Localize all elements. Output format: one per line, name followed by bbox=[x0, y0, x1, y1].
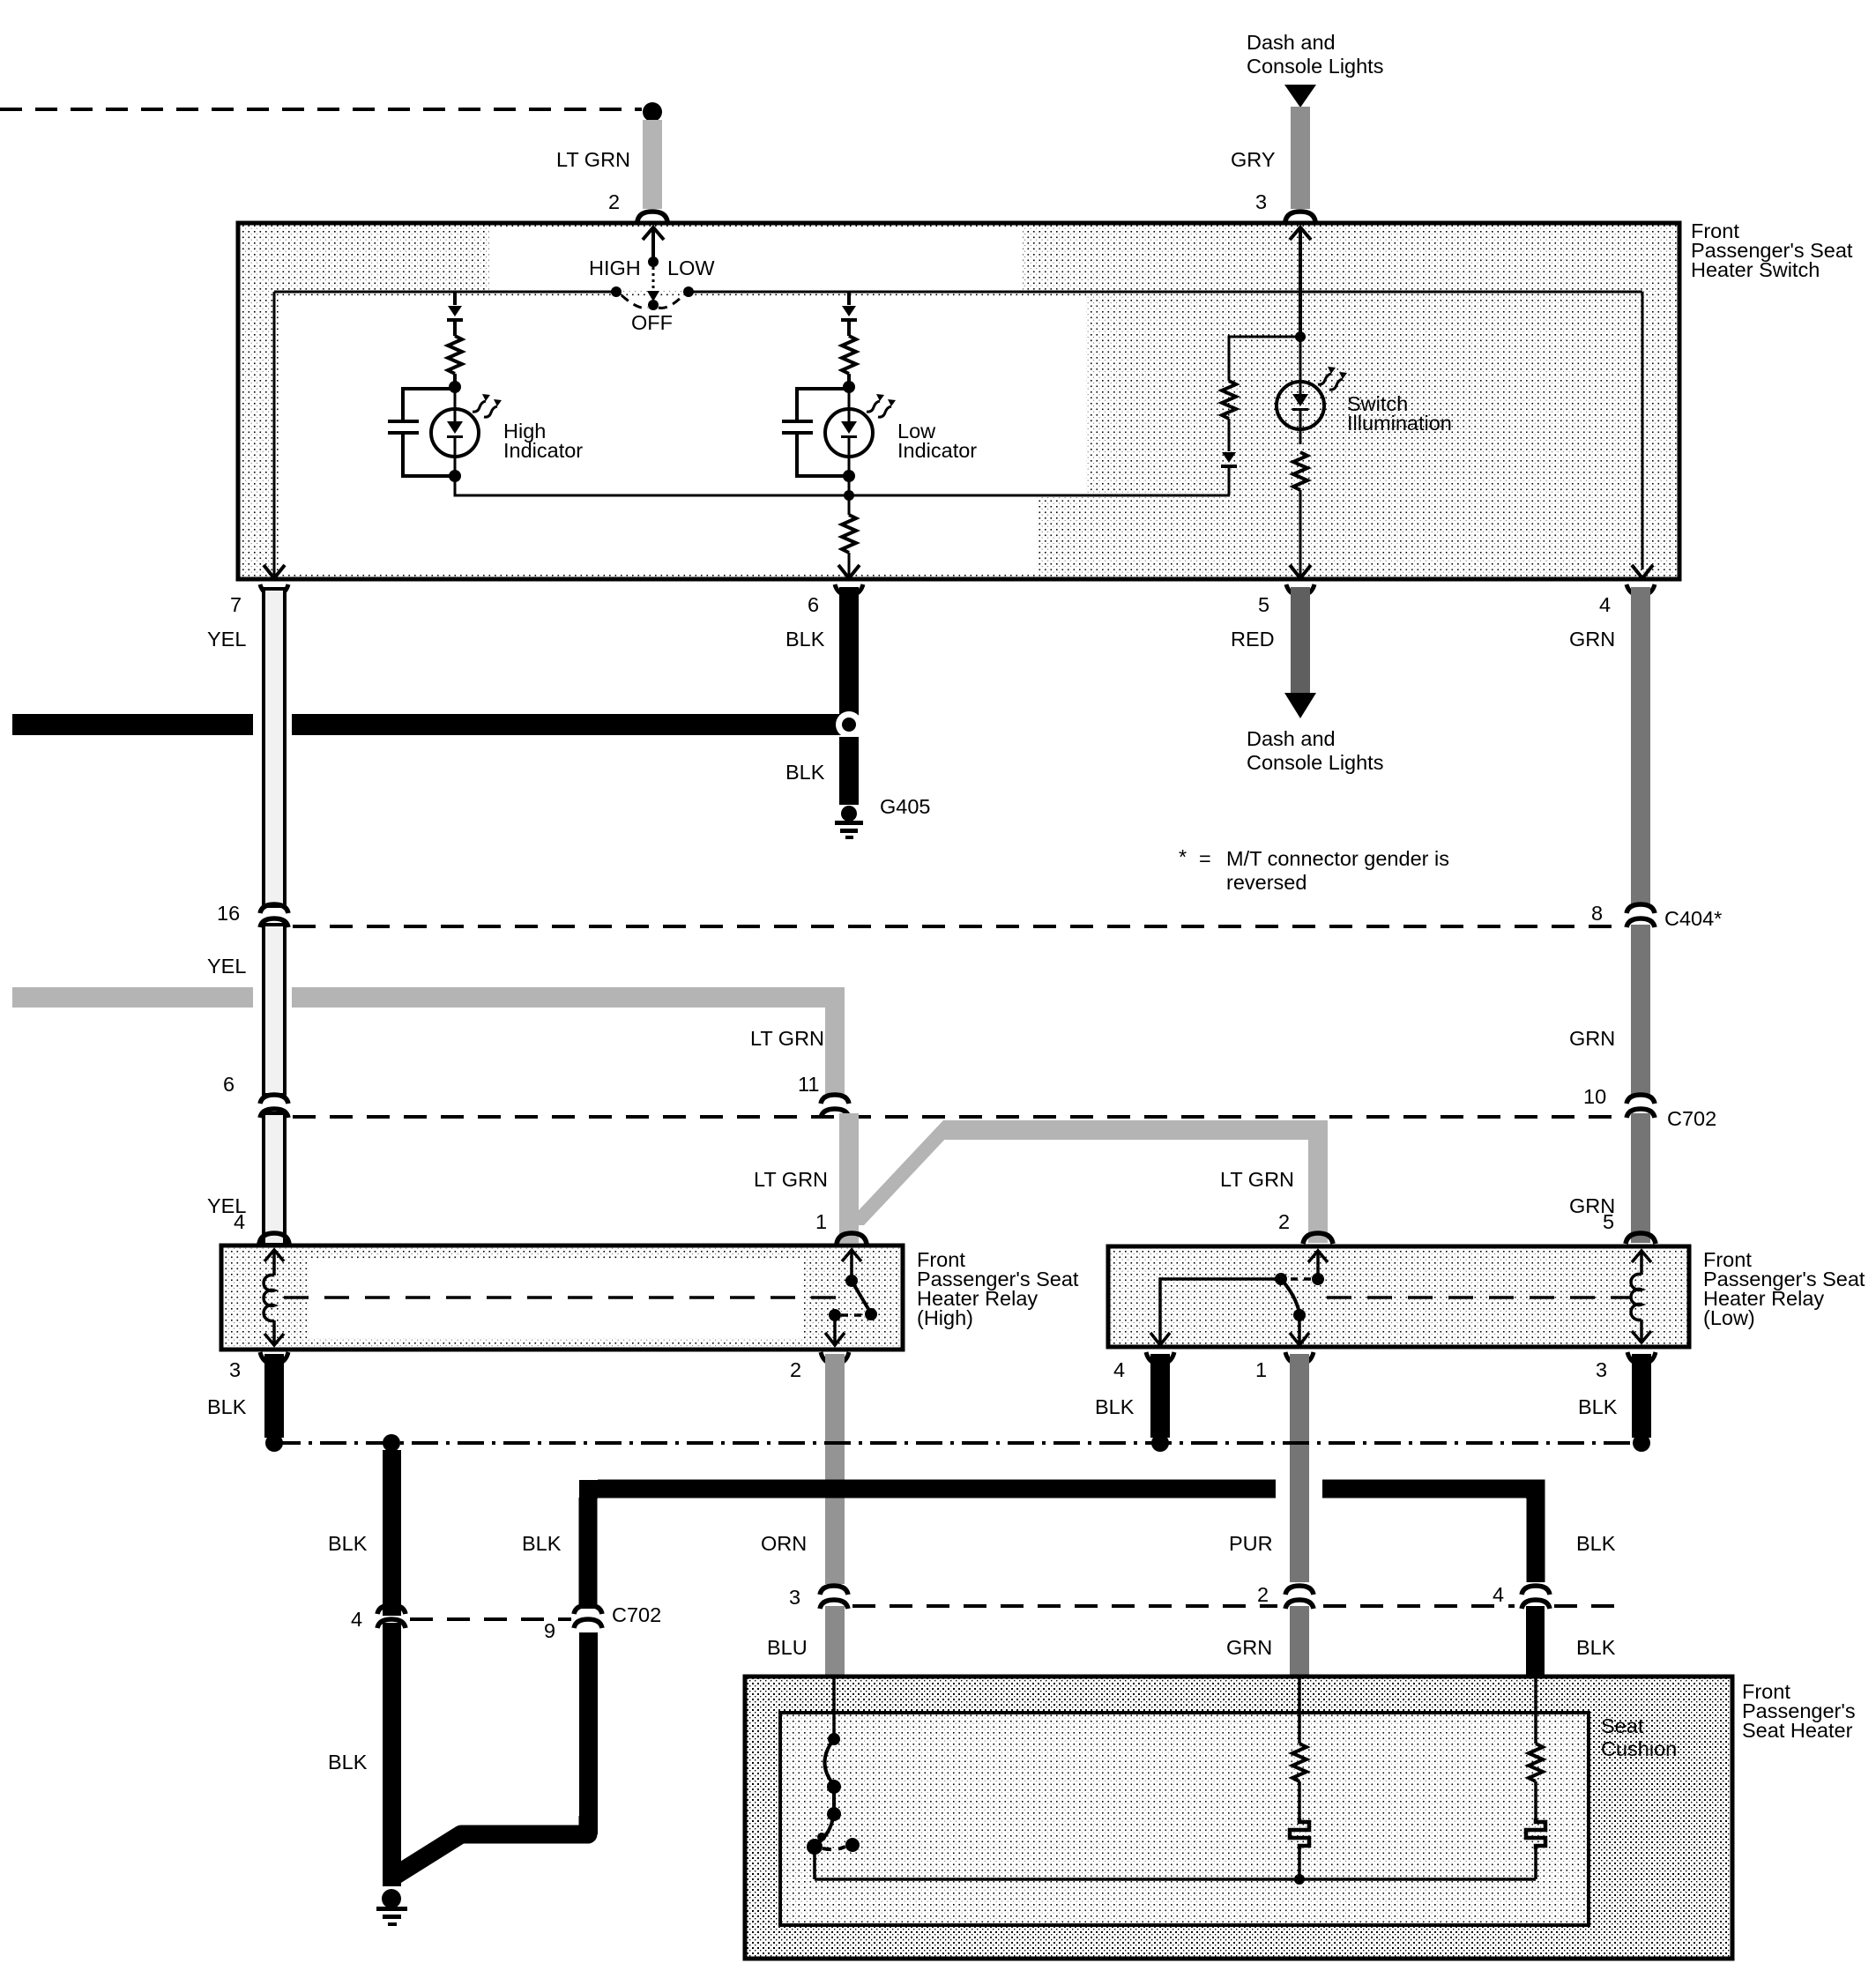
svg-text:reversed: reversed bbox=[1226, 871, 1306, 894]
resistor R3 (low branch lower) bbox=[848, 495, 851, 515]
wire LT GRN below C702 to relay high pin 1 bbox=[839, 1113, 859, 1243]
wire RED bbox=[1291, 587, 1310, 694]
svg-text:3: 3 bbox=[789, 1586, 800, 1609]
svg-text:1: 1 bbox=[1255, 1358, 1267, 1381]
resistor R5 bbox=[1293, 452, 1307, 490]
svg-text:Console Lights: Console Lights bbox=[1247, 55, 1383, 78]
Front Passenger's Seat Heater box bbox=[745, 1677, 1732, 1959]
ground (bottom) bbox=[382, 1889, 401, 1908]
connector 2 (PUR/GRN) bbox=[1285, 1586, 1314, 1595]
wire BLU bbox=[825, 1606, 845, 1678]
wire: dashed wire to LT GRN node bbox=[0, 108, 642, 111]
svg-text:BLK: BLK bbox=[785, 628, 825, 651]
pin 1 bracket (relay high top) bbox=[837, 1233, 867, 1244]
resistor R2 bbox=[842, 336, 856, 374]
svg-text:Console Lights: Console Lights bbox=[1247, 751, 1383, 774]
wire BLK relay low pin4 bbox=[1150, 1354, 1170, 1438]
svg-text:4: 4 bbox=[1493, 1583, 1504, 1606]
svg-text:C404*: C404* bbox=[1664, 907, 1722, 930]
pin 4 bracket (relay high top) bbox=[259, 1233, 289, 1244]
relay K1 coil bbox=[272, 1251, 276, 1275]
arrow into pin 4 bbox=[1632, 565, 1653, 578]
svg-text:C702: C702 bbox=[1667, 1107, 1716, 1130]
svg-text:BLK: BLK bbox=[522, 1532, 562, 1555]
svg-text:Seat: Seat bbox=[1601, 1714, 1644, 1737]
junction: BLK bus to pin6 wire bbox=[836, 711, 862, 738]
pin 1 bracket (relay low bottom) bbox=[1285, 1352, 1314, 1364]
svg-text:BLU: BLU bbox=[767, 1636, 808, 1659]
svg-text:6: 6 bbox=[223, 1073, 234, 1096]
High indicator branch bbox=[388, 292, 583, 482]
wire: thick BLK ground bus (upper) bbox=[12, 714, 253, 735]
branch to dropping resistor bbox=[1229, 337, 1300, 381]
wire BLK below connector 9 bbox=[579, 1632, 598, 1834]
svg-text:2: 2 bbox=[1278, 1210, 1290, 1233]
pin 7 bracket bbox=[260, 584, 288, 595]
svg-text:YEL: YEL bbox=[207, 955, 246, 978]
svg-text:PUR: PUR bbox=[1229, 1532, 1273, 1555]
wire ORN bbox=[825, 1354, 845, 1584]
seat cushion common wire bbox=[815, 1878, 1536, 1881]
wire LT GRN branch to relay low pin 2 bbox=[845, 1120, 963, 1225]
svg-text:OFF: OFF bbox=[631, 311, 673, 334]
svg-text:(High): (High) bbox=[917, 1306, 973, 1329]
wire GRN (seat heater feed) bbox=[1290, 1606, 1309, 1678]
switch wiper (dotted, to OFF) bbox=[652, 267, 655, 293]
capacitor C2 bbox=[797, 389, 849, 476]
svg-text:BLK: BLK bbox=[1578, 1395, 1618, 1418]
connector 11 (LT GRN) bbox=[821, 1095, 849, 1104]
svg-text:M/T connector gender is: M/T connector gender is bbox=[1226, 847, 1449, 870]
pin 2 bracket (relay low top) bbox=[1303, 1233, 1333, 1244]
wire: indicator common bus bbox=[455, 476, 1230, 495]
svg-text:Indicator: Indicator bbox=[897, 439, 977, 462]
node: OFF position bbox=[648, 300, 659, 310]
dashed throw arc bbox=[622, 295, 683, 308]
wire GRN bbox=[1631, 587, 1650, 906]
pin 5 bracket (relay low top) bbox=[1626, 1233, 1656, 1244]
svg-text:1: 1 bbox=[815, 1210, 827, 1233]
diode D3 bbox=[1222, 452, 1236, 463]
svg-text:RED: RED bbox=[1231, 628, 1275, 651]
svg-text:3: 3 bbox=[1596, 1358, 1607, 1381]
svg-text:Heater Switch: Heater Switch bbox=[1691, 258, 1820, 281]
svg-text:G405: G405 bbox=[880, 795, 931, 818]
svg-text:3: 3 bbox=[229, 1358, 241, 1381]
Switch illumination branch bbox=[1221, 227, 1452, 578]
svg-text:Illumination: Illumination bbox=[1347, 412, 1452, 435]
svg-text:3: 3 bbox=[1255, 190, 1267, 213]
wire: LT GRN feed bus (horizontal) bbox=[12, 987, 253, 1008]
capacitor C1 bbox=[403, 389, 455, 476]
wire GRY bbox=[1291, 107, 1310, 209]
resistor R4 bbox=[1222, 381, 1236, 419]
svg-text:LT GRN: LT GRN bbox=[750, 1027, 824, 1050]
svg-text:GRY: GRY bbox=[1231, 148, 1276, 171]
pin 2 connector bracket bbox=[637, 212, 667, 221]
wire BLK pin6 bbox=[839, 587, 859, 718]
wire BLK relay high pin3 bbox=[264, 1354, 284, 1438]
svg-text:*: * bbox=[1179, 845, 1187, 868]
svg-text:16: 16 bbox=[217, 902, 240, 925]
wire BLK (seat heater return) bbox=[1526, 1606, 1545, 1678]
relay K1: Front Passenger's Seat Heater Relay (High) box bbox=[221, 1246, 903, 1350]
svg-text:4: 4 bbox=[1599, 593, 1611, 616]
resistor R1 bbox=[448, 336, 462, 374]
node A: splice dot on LT GRN bbox=[643, 102, 662, 122]
inner contact line bbox=[274, 292, 1642, 569]
svg-text:BLK: BLK bbox=[1576, 1636, 1616, 1659]
svg-text:GRN: GRN bbox=[1569, 628, 1615, 651]
wire YEL (hollow) bbox=[264, 589, 285, 906]
diode D2 bbox=[842, 306, 856, 316]
Seat Cushion inner box bbox=[780, 1713, 1589, 1925]
svg-text:2: 2 bbox=[608, 190, 620, 213]
dashed connector line C404 bbox=[293, 925, 1625, 928]
svg-text:BLK: BLK bbox=[785, 761, 825, 784]
svg-text:2: 2 bbox=[790, 1358, 801, 1381]
svg-text:4: 4 bbox=[1113, 1358, 1125, 1381]
wire BLK relay low pin3 bbox=[1632, 1354, 1651, 1438]
wire LT GRN drop to connector 11 bbox=[825, 987, 845, 1095]
connector 3 (ORN/BLU) bbox=[820, 1586, 848, 1595]
connector 4 (BLK) bbox=[1522, 1586, 1550, 1595]
wire BLK drop to ground bbox=[383, 1450, 401, 1616]
svg-text:Dash and: Dash and bbox=[1247, 727, 1336, 750]
svg-text:7: 7 bbox=[230, 593, 242, 616]
svg-text:4: 4 bbox=[351, 1608, 362, 1631]
connector 6 (YEL) bbox=[260, 1095, 288, 1104]
wire GRN below C702 to relay low pin 5 bbox=[1631, 1113, 1650, 1243]
svg-text:5: 5 bbox=[1603, 1210, 1614, 1233]
svg-text:LOW: LOW bbox=[667, 257, 715, 279]
pin 2 bracket (relay high bottom) bbox=[821, 1352, 849, 1364]
wire GRN below C404 bbox=[1631, 925, 1650, 1095]
pin 3 bracket (relay high bottom) bbox=[260, 1352, 288, 1364]
node bbox=[449, 470, 461, 482]
LED lamp High bbox=[431, 409, 479, 457]
node bbox=[449, 381, 461, 393]
relay K2 internal dashed link bbox=[1327, 1296, 1631, 1299]
svg-text:GRN: GRN bbox=[1569, 1027, 1615, 1050]
switch pivot node bbox=[648, 257, 659, 267]
connector 10 (GRN) bbox=[1627, 1095, 1655, 1104]
heater element 1 (GRN side) bbox=[1298, 1678, 1301, 1744]
svg-text:C702: C702 bbox=[612, 1603, 661, 1626]
svg-text:BLK: BLK bbox=[328, 1532, 368, 1555]
svg-text:GRN: GRN bbox=[1226, 1636, 1272, 1659]
svg-text:2: 2 bbox=[1257, 1583, 1269, 1606]
thermostat chain bbox=[832, 1678, 836, 1735]
switch contact HIGH bbox=[611, 286, 622, 297]
svg-text:(Low): (Low) bbox=[1703, 1306, 1755, 1329]
svg-text:8: 8 bbox=[1591, 902, 1603, 925]
svg-text:BLK: BLK bbox=[207, 1395, 247, 1418]
svg-text:6: 6 bbox=[808, 593, 819, 616]
ground bus (dash-dot) bbox=[274, 1441, 1641, 1445]
emission arrows bbox=[473, 394, 490, 412]
svg-text:5: 5 bbox=[1258, 593, 1269, 616]
diode D1 bbox=[448, 306, 462, 316]
svg-text:BLK: BLK bbox=[1095, 1395, 1135, 1418]
LED lamp Switch Illumination bbox=[1277, 382, 1324, 429]
svg-text:BLK: BLK bbox=[328, 1751, 368, 1774]
connector 4 (BLK) bbox=[377, 1605, 406, 1614]
arrow from Dash and Console Lights bbox=[1284, 85, 1316, 108]
wire bbox=[453, 292, 457, 305]
svg-text:=: = bbox=[1199, 847, 1211, 870]
svg-text:9: 9 bbox=[544, 1619, 555, 1642]
relay K2: Front Passenger's Seat Heater Relay (Low) box bbox=[1108, 1246, 1689, 1347]
svg-text:BLK: BLK bbox=[1576, 1532, 1616, 1555]
Low indicator branch bbox=[782, 292, 977, 482]
svg-text:11: 11 bbox=[798, 1073, 819, 1096]
pin 6 bracket bbox=[835, 584, 863, 595]
arrow into pin 7 bbox=[273, 569, 276, 576]
heater element 2 (BLK side) bbox=[1534, 1678, 1537, 1744]
connector 8 (GRN) bbox=[1627, 904, 1655, 913]
svg-text:YEL: YEL bbox=[207, 628, 246, 651]
svg-text:Dash and: Dash and bbox=[1247, 31, 1336, 54]
relay K2 switch bbox=[1316, 1252, 1320, 1275]
wire YEL below C702 to relay high pin 4 bbox=[264, 1113, 285, 1243]
svg-text:HIGH: HIGH bbox=[589, 257, 641, 279]
wire PUR bbox=[1290, 1354, 1309, 1582]
svg-text:4: 4 bbox=[234, 1210, 245, 1233]
wire BLK to G405 bbox=[839, 737, 859, 805]
wire YEL below C404 bbox=[264, 925, 285, 1095]
wire BLK elbow to ground bbox=[395, 1816, 588, 1876]
switch contact LOW bbox=[683, 286, 694, 297]
pin 3 bracket (relay low bottom right) bbox=[1627, 1352, 1656, 1364]
wire: thick BLK heater return bus bbox=[588, 1489, 1536, 1609]
pin 4 bracket (relay low bottom) bbox=[1146, 1352, 1174, 1364]
relay K1 internal dashed link bbox=[284, 1296, 837, 1299]
relay K1 switch bbox=[850, 1251, 853, 1277]
svg-text:LT GRN: LT GRN bbox=[754, 1168, 828, 1191]
pin 5 bracket bbox=[1286, 584, 1314, 595]
svg-text:ORN: ORN bbox=[761, 1532, 807, 1555]
svg-text:LT GRN: LT GRN bbox=[556, 148, 630, 171]
svg-text:Cushion: Cushion bbox=[1601, 1737, 1677, 1760]
svg-text:Seat Heater: Seat Heater bbox=[1742, 1719, 1853, 1742]
LED lamp Low bbox=[825, 409, 873, 457]
connector 16 (YEL) bbox=[260, 904, 288, 913]
svg-text:10: 10 bbox=[1583, 1085, 1606, 1108]
wire: switch common with up arrow bbox=[651, 227, 655, 262]
relay K2 coil bbox=[1640, 1252, 1643, 1275]
svg-text:LT GRN: LT GRN bbox=[1220, 1168, 1294, 1191]
pin 4 bracket bbox=[1627, 584, 1655, 595]
wire LT GRN (switch pin 2 feed) bbox=[643, 120, 662, 209]
Front Passenger's Seat Heater Switch box bbox=[238, 223, 1679, 579]
connector 9 (BLK) bbox=[574, 1605, 602, 1614]
svg-text:Indicator: Indicator bbox=[503, 439, 583, 462]
pin 3 connector bracket bbox=[1285, 212, 1315, 221]
ground G405 bbox=[841, 806, 857, 822]
